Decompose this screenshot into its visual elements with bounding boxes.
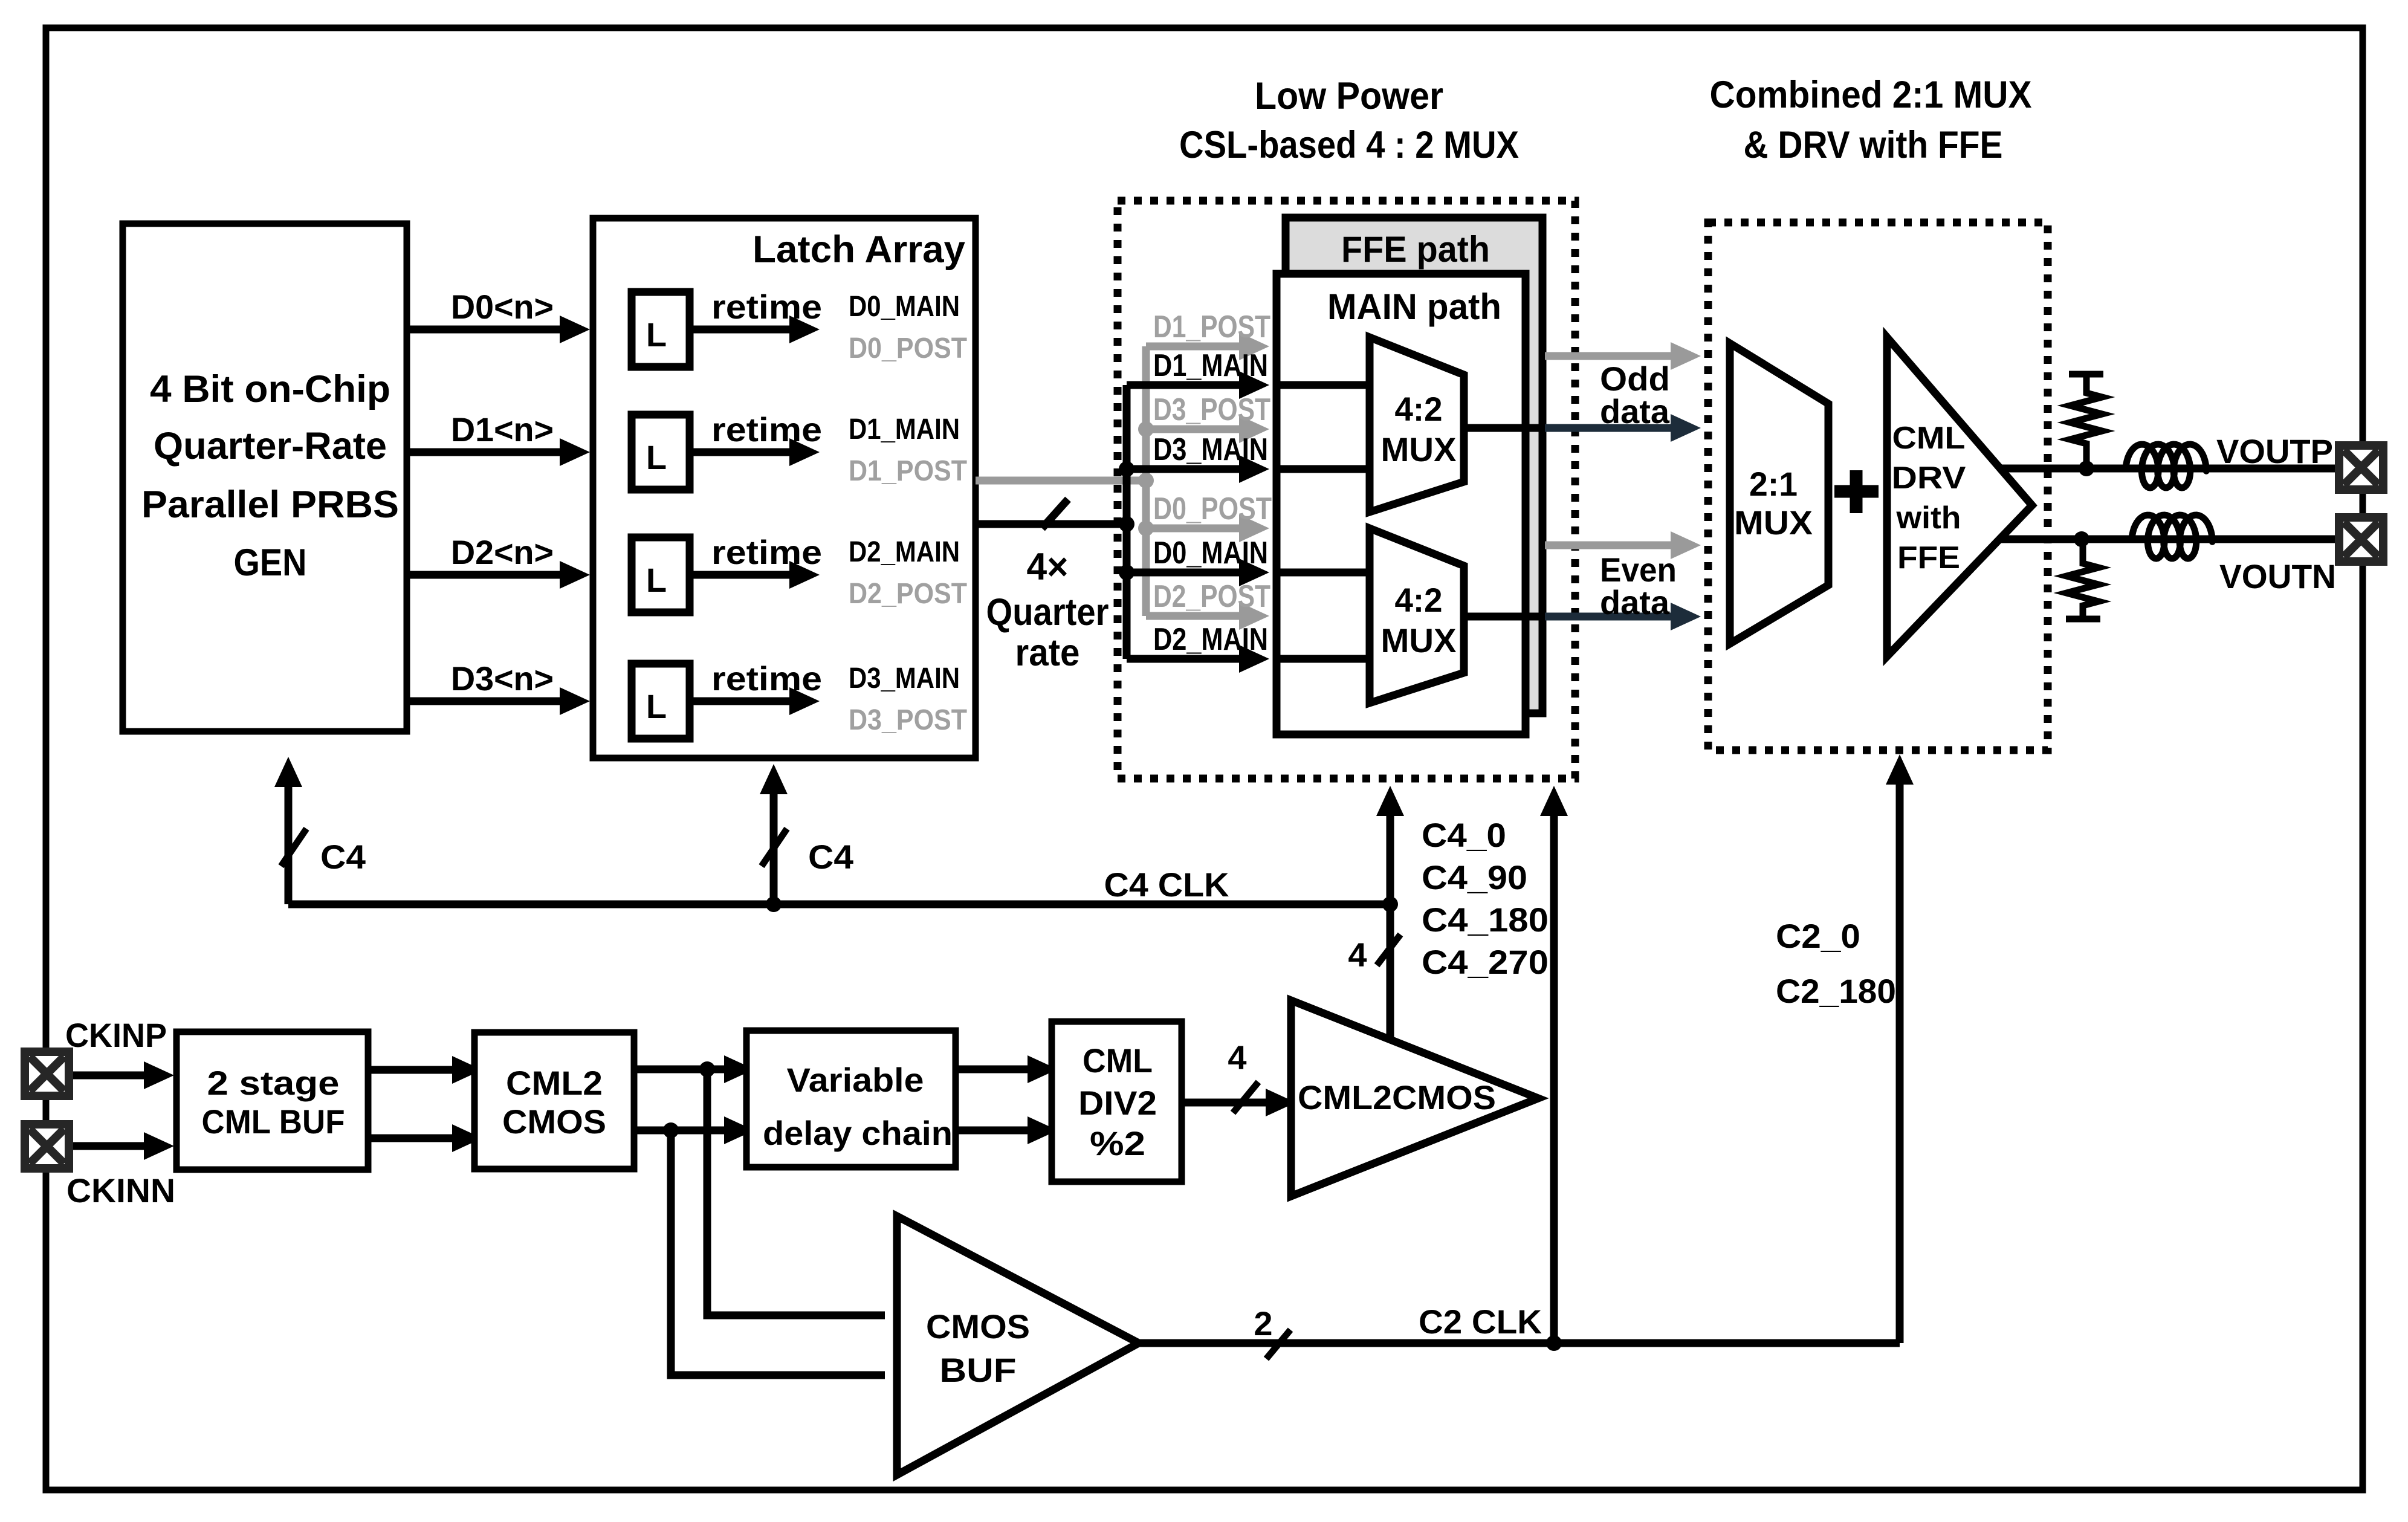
svg-text:D0_POST: D0_POST <box>1153 491 1272 526</box>
svg-text:C2 CLK: C2 CLK <box>1419 1303 1542 1341</box>
svg-text:GEN: GEN <box>234 542 307 584</box>
svg-text:DRV: DRV <box>1892 461 1966 496</box>
svg-text:C2_180: C2_180 <box>1776 972 1896 1010</box>
svg-text:CMOS: CMOS <box>502 1103 606 1141</box>
svg-text:delay chain: delay chain <box>763 1114 953 1152</box>
svg-text:4: 4 <box>1228 1038 1246 1077</box>
svg-text:FFE: FFE <box>1897 540 1960 575</box>
svg-text:data: data <box>1600 392 1670 430</box>
svg-text:D1_MAIN: D1_MAIN <box>849 413 960 445</box>
svg-text:D2_POST: D2_POST <box>849 578 967 610</box>
svg-text:D3<n>: D3<n> <box>451 659 554 698</box>
svg-text:CML: CML <box>1892 421 1966 456</box>
svg-text:data: data <box>1600 583 1670 621</box>
svg-text:C4 CLK: C4 CLK <box>1104 866 1229 904</box>
svg-text:MUX: MUX <box>1734 504 1813 542</box>
svg-text:D2_POST: D2_POST <box>1153 579 1270 614</box>
svg-text:C4_270: C4_270 <box>1422 943 1549 981</box>
svg-text:CML BUF: CML BUF <box>202 1103 345 1141</box>
svg-text:D2<n>: D2<n> <box>451 533 554 571</box>
svg-text:C4_90: C4_90 <box>1422 858 1527 896</box>
svg-text:D2_MAIN: D2_MAIN <box>1153 622 1268 657</box>
svg-text:D0_POST: D0_POST <box>849 332 967 364</box>
svg-text:2:1: 2:1 <box>1749 465 1798 503</box>
svg-text:D1_POST: D1_POST <box>1153 309 1270 345</box>
svg-text:VOUTP: VOUTP <box>2216 432 2333 470</box>
svg-text:retime: retime <box>711 410 822 449</box>
svg-text:D3_POST: D3_POST <box>1153 392 1270 427</box>
svg-text:Parallel PRBS: Parallel PRBS <box>141 484 399 526</box>
svg-text:retime: retime <box>711 533 822 571</box>
svg-text:D0<n>: D0<n> <box>451 288 554 326</box>
svg-text:CKINN: CKINN <box>66 1171 175 1210</box>
svg-text:CML2CMOS: CML2CMOS <box>1298 1078 1496 1116</box>
svg-text:D0_MAIN: D0_MAIN <box>849 291 960 323</box>
svg-text:retime: retime <box>711 659 822 698</box>
svg-text:D3_MAIN: D3_MAIN <box>1153 432 1268 467</box>
svg-text:MUX: MUX <box>1381 621 1457 659</box>
svg-text:CML: CML <box>1083 1041 1153 1080</box>
svg-text:D3_MAIN: D3_MAIN <box>849 662 960 695</box>
svg-text:CKINP: CKINP <box>65 1016 167 1054</box>
svg-text:Latch Array: Latch Array <box>752 228 965 271</box>
svg-text:CMOS: CMOS <box>926 1307 1030 1346</box>
svg-text:C4_180: C4_180 <box>1422 901 1549 939</box>
svg-text:CML2: CML2 <box>506 1064 603 1102</box>
svg-text:4×: 4× <box>1027 546 1069 588</box>
svg-text:Low Power: Low Power <box>1255 75 1443 117</box>
svg-text:D1<n>: D1<n> <box>451 410 554 449</box>
svg-text:C4: C4 <box>320 838 366 876</box>
svg-text:4:2: 4:2 <box>1395 581 1443 619</box>
svg-text:L: L <box>646 561 667 599</box>
svg-text:L: L <box>646 438 667 476</box>
svg-text:Quarter: Quarter <box>986 591 1109 633</box>
svg-text:D2_MAIN: D2_MAIN <box>849 536 960 568</box>
svg-text:CSL-based 4 : 2 MUX: CSL-based 4 : 2 MUX <box>1179 124 1519 166</box>
svg-text:2 stage: 2 stage <box>207 1064 340 1102</box>
svg-text:C2_0: C2_0 <box>1776 917 1860 955</box>
svg-text:retime: retime <box>711 288 822 326</box>
svg-text:Combined 2:1 MUX: Combined 2:1 MUX <box>1710 74 2032 116</box>
svg-text:D1_MAIN: D1_MAIN <box>1153 348 1268 383</box>
svg-text:MUX: MUX <box>1381 430 1457 468</box>
svg-text:with: with <box>1895 500 1961 536</box>
svg-text:%2: %2 <box>1090 1124 1145 1162</box>
svg-text:D3_POST: D3_POST <box>849 704 967 736</box>
svg-text:FFE path: FFE path <box>1341 229 1490 270</box>
svg-text:D0_MAIN: D0_MAIN <box>1153 536 1268 571</box>
svg-text:L: L <box>646 687 667 725</box>
svg-text:C4_0: C4_0 <box>1422 816 1506 854</box>
svg-text:MAIN path: MAIN path <box>1327 287 1501 327</box>
svg-text:4 Bit on-Chip: 4 Bit on-Chip <box>150 368 390 410</box>
svg-text:4: 4 <box>1348 936 1367 974</box>
svg-text:rate: rate <box>1015 632 1080 674</box>
svg-text:Variable: Variable <box>787 1061 924 1099</box>
svg-text:Quarter-Rate: Quarter-Rate <box>154 425 387 467</box>
svg-text:D1_POST: D1_POST <box>849 455 967 487</box>
svg-text:VOUTN: VOUTN <box>2219 557 2336 595</box>
svg-text:2: 2 <box>1254 1304 1272 1342</box>
svg-text:DIV2: DIV2 <box>1078 1084 1157 1122</box>
svg-text:L: L <box>646 316 667 354</box>
svg-text:C4: C4 <box>808 838 853 876</box>
svg-text:4:2: 4:2 <box>1395 390 1443 428</box>
svg-text:& DRV with FFE: & DRV with FFE <box>1744 124 2003 166</box>
svg-text:BUF: BUF <box>940 1351 1017 1389</box>
